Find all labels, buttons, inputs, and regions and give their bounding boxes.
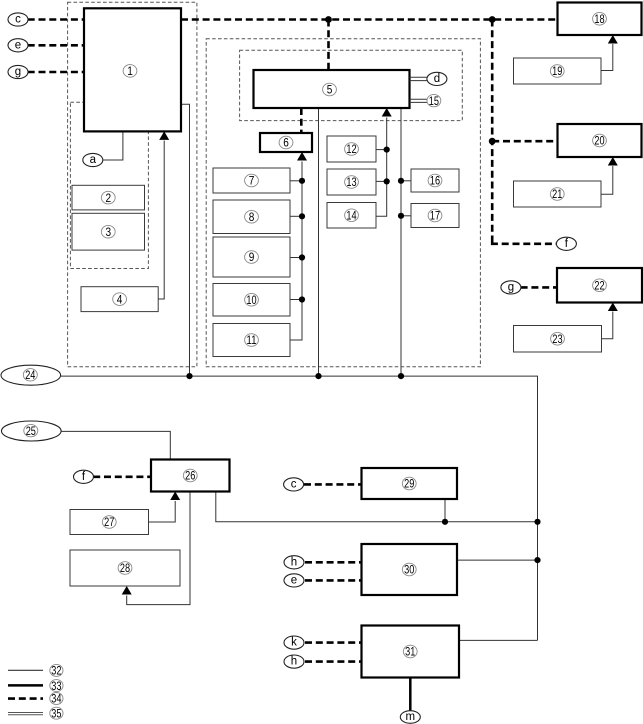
legend line 32: thin solid (8, 664, 63, 678)
wire: block 19 up into block 18 (arrow) (601, 35, 618, 71)
svg-text:h: h (291, 656, 297, 668)
svg-text:15: 15 (429, 94, 440, 108)
svg-text:30: 30 (404, 563, 415, 577)
svg-text:28: 28 (120, 561, 131, 575)
label 15 (circled) (427, 94, 441, 108)
block 8 (213, 200, 290, 234)
block 5 (254, 70, 410, 108)
double wire: block 5 to connector d (410, 77, 427, 80)
double wire: block 5 to label 15 (410, 99, 428, 102)
svg-text:26: 26 (185, 469, 196, 483)
svg-text:33: 33 (51, 679, 62, 693)
connector d (427, 72, 447, 85)
wire: dashed from connector e to block 1 (28, 44, 84, 47)
connector m (block 31 output) (400, 711, 420, 724)
svg-text:16: 16 (430, 174, 441, 188)
svg-text:34: 34 (51, 692, 62, 706)
wire: connector g2 dashed into block 22 (521, 286, 557, 289)
block 27 (70, 510, 149, 535)
svg-text:1: 1 (127, 64, 133, 78)
connector c2 (left of block 29) (284, 478, 304, 491)
wire: block 26 right drop to horizontal net (216, 492, 538, 522)
wire: block 26 down-left into block 28 bottom (arrow) (122, 492, 190, 605)
block 4 (81, 287, 158, 312)
svg-text:3: 3 (105, 225, 111, 239)
wire: block 21 up into block 20 (arrow) (601, 157, 618, 194)
connector g2 (right) (501, 281, 521, 294)
wire: bold output from block 31 to connector m (409, 678, 412, 712)
svg-text:6: 6 (283, 136, 289, 150)
wire: collector from blocks 7-11 up into block 6 bottom (arrow) (290, 152, 307, 340)
connector f (right) (556, 237, 576, 250)
svg-text:35: 35 (51, 706, 62, 720)
dashed container: sub-group around block 5 (240, 50, 463, 120)
block 14 (327, 203, 376, 229)
connector e2 (block 30 input) (284, 574, 304, 587)
svg-text:24: 24 (25, 368, 36, 382)
wire: drop to block 17 (401, 215, 411, 217)
block 22 (557, 268, 642, 303)
svg-text:e: e (291, 575, 297, 587)
block 3 (72, 213, 145, 250)
wire: block 10 to collector (290, 299, 302, 301)
svg-text:9: 9 (249, 250, 255, 264)
svg-text:31: 31 (405, 645, 415, 659)
svg-text:21: 21 (552, 187, 562, 201)
svg-text:a: a (90, 154, 97, 166)
block 28 (70, 550, 180, 586)
block 21 (514, 181, 602, 207)
wire: block 31 right up trunk (459, 639, 538, 641)
wire: block 29 bottom drop to net (444, 499, 446, 522)
svg-text:g: g (508, 282, 514, 294)
wire: block 9 to collector (290, 257, 302, 259)
svg-text:29: 29 (404, 477, 414, 491)
junction dot drop/block16 (398, 178, 404, 184)
svg-text:2: 2 (105, 191, 111, 205)
dashed container: left group (blocks 1-4) (68, 2, 197, 367)
wire: dashed from connector c to block 1 (28, 18, 84, 21)
svg-text:5: 5 (327, 83, 333, 97)
wire: bold dashed bus from block 1 to block 18 (181, 18, 558, 21)
junction dot trunk/block30 (534, 557, 540, 563)
block 30 (362, 544, 458, 595)
wire: block 12 to riser (376, 149, 387, 151)
wire: bold dashed from block 5 bottom to block 6 top (300, 108, 303, 133)
block 13 (327, 169, 376, 195)
junction dot at trunk / block-20 branch (489, 138, 496, 145)
block 23 (514, 326, 602, 353)
wire: block 23 up into block 22 (arrow) (602, 303, 618, 339)
svg-text:h: h (291, 556, 297, 568)
wire: block 5 bottom right drop to bus 24 (400, 108, 402, 376)
connector 25 (2, 421, 62, 441)
wire: block 27 up into block 26 bottom (arrow) (149, 492, 181, 523)
dashed container: inner sub-group (blocks 2-3) (70, 102, 148, 268)
block 12 (327, 136, 376, 162)
svg-text:4: 4 (117, 292, 123, 306)
block 29 (362, 468, 458, 499)
junction dot at top bus / block-5 drop (325, 16, 332, 23)
connector c (top input) (8, 13, 28, 26)
wire: bold dashed drop from top bus into block 5 top (327, 20, 330, 71)
block 1 (84, 8, 181, 131)
svg-text:14: 14 (346, 208, 357, 222)
block 6 (260, 133, 312, 152)
wire: block 8 to collector (290, 215, 302, 217)
block 31 (362, 626, 460, 678)
junction dot collector/block7 (299, 178, 305, 184)
svg-text:13: 13 (346, 175, 357, 189)
svg-text:k: k (291, 637, 297, 649)
connector k (block 31 input) (284, 636, 304, 649)
junction dot bus24 / block1 drop (186, 373, 192, 379)
wire: bold dashed from trunk corner to connector f (492, 243, 557, 244)
junction dot bus24 / block5 right drop (398, 373, 404, 379)
wire: bus 24 horizontal and right drop (61, 376, 538, 640)
block 11 (213, 324, 290, 357)
svg-text:32: 32 (51, 664, 61, 678)
junction dot net/right trunk (534, 519, 540, 525)
svg-text:19: 19 (552, 64, 562, 78)
svg-text:11: 11 (246, 333, 256, 347)
wire: dashed connector h1 to block 30 (305, 561, 362, 564)
block 7 (213, 168, 290, 193)
junction dot collector/block8 (299, 213, 305, 219)
connector a (83, 153, 103, 166)
wire: dashed connector c2 to block 29 (304, 483, 362, 486)
svg-text:12: 12 (346, 142, 356, 156)
wire: connector a to block 1 bottom (103, 131, 123, 160)
block 17 (411, 204, 459, 228)
wire: block 5 bottom left drop to bus 24 (318, 108, 320, 376)
junction dot at top bus / right trunk (489, 16, 496, 23)
wire: block 1 right side down to bus 24 (181, 104, 190, 376)
svg-text:23: 23 (552, 332, 563, 346)
block 9 (213, 237, 290, 277)
svg-text:10: 10 (246, 293, 257, 307)
wire: drop to block 16 (401, 180, 411, 182)
svg-text:25: 25 (26, 424, 37, 438)
junction dot net/block29 (442, 519, 448, 525)
block 10 (213, 284, 290, 317)
svg-text:7: 7 (249, 174, 255, 188)
block 19 (514, 58, 602, 84)
svg-text:22: 22 (594, 278, 604, 292)
wire: dashed connector h2 to block 31 (305, 660, 362, 663)
legend line 33: bold solid (8, 679, 63, 693)
wire: dashed from connector g to block 1 (28, 71, 84, 74)
block 20 (558, 124, 642, 157)
wire: block 14 right up into block 5 bottom (arrow) (376, 108, 392, 216)
svg-text:e: e (15, 39, 21, 51)
block 26 (151, 460, 230, 492)
wire: connector 25 to block 26 top (61, 431, 170, 459)
svg-text:g: g (15, 66, 21, 78)
block 16 (411, 169, 459, 192)
wire: block 7 to collector (290, 180, 302, 182)
legend line 34: bold dashed (8, 692, 63, 706)
wire: bold dashed vertical trunk x=492 from top bus down (491, 20, 494, 244)
svg-text:c: c (291, 479, 297, 491)
wire: dashed connector f2 to block 26 (93, 475, 151, 478)
junction dot collector/block10 (299, 296, 305, 302)
connector h2 (block 31 input) (284, 655, 304, 668)
wire: block 4 right up into block 1 bottom (arrow) (158, 131, 169, 299)
junction dot bus24 / block5 left drop (315, 373, 321, 379)
svg-text:18: 18 (594, 12, 605, 26)
connector g (top input) (8, 65, 28, 78)
dashed container: middle group (blocks 5-17) (206, 39, 480, 367)
svg-text:20: 20 (594, 134, 605, 148)
wire: bold dashed branch from trunk to block 20 (492, 140, 557, 143)
svg-text:m: m (406, 711, 416, 723)
block 18 (558, 3, 642, 36)
connector e (top input) (8, 39, 28, 52)
wire: block 13 to riser (376, 180, 387, 182)
wire: dashed connector e2 to block 30 (305, 579, 362, 582)
svg-text:d: d (434, 73, 440, 85)
connector 24 (bus label) (1, 365, 61, 385)
junction dot riser/block12 (384, 147, 390, 153)
connector f2 (left of block 26) (74, 470, 94, 483)
junction dot drop/block17 (398, 213, 404, 219)
legend line 35: double thin (8, 706, 63, 720)
junction dot riser/block13 (384, 178, 390, 184)
svg-text:8: 8 (249, 210, 255, 224)
wire: dashed connector k to block 31 (305, 641, 362, 644)
wire: block 30 right to trunk (457, 559, 538, 561)
svg-text:c: c (15, 14, 21, 26)
block 2 (72, 185, 145, 210)
connector h1 (block 30 input) (284, 556, 304, 569)
svg-text:17: 17 (430, 209, 440, 223)
junction dot collector/block9 (299, 254, 305, 260)
svg-text:27: 27 (104, 515, 114, 529)
